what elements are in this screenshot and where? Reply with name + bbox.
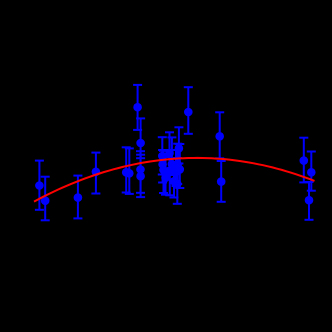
data point C1 — [158, 152, 167, 161]
data point P5 — [133, 103, 142, 112]
error bar C5 — [167, 137, 176, 175]
error bar P6 — [136, 118, 145, 158]
error bar C4 — [165, 132, 174, 173]
error bar C11 — [170, 162, 179, 198]
error bar P14 — [299, 138, 308, 183]
error bar P15 — [307, 152, 316, 191]
data point P9 — [136, 165, 145, 174]
data point C10 — [176, 165, 185, 174]
error bar C7b — [172, 150, 181, 186]
error bar P2 — [41, 177, 50, 221]
data point C7 — [173, 180, 182, 189]
error bar C8 — [174, 127, 183, 163]
data point C6 — [166, 166, 175, 175]
data point C4 — [165, 149, 174, 158]
data point C5 — [168, 160, 177, 169]
data point C7b — [172, 168, 181, 177]
error bar P8 — [125, 148, 134, 194]
error bar C3 — [159, 151, 168, 193]
data point P13 — [217, 177, 226, 186]
data point P11 — [184, 108, 193, 117]
data point C2 — [158, 160, 167, 169]
error bar P5 — [133, 85, 142, 130]
data point C3 — [159, 166, 168, 175]
data point P12 — [215, 132, 224, 141]
data point C3b — [161, 174, 170, 183]
data point P6 — [136, 139, 145, 148]
red best-fit curve — [34, 158, 315, 202]
data point P14 — [300, 156, 309, 165]
error bar C6 — [165, 150, 174, 195]
error bar P13 — [217, 161, 226, 202]
data point P2 — [41, 196, 50, 205]
error bar P16 — [305, 182, 314, 220]
data point P4 — [92, 168, 101, 177]
data point P3 — [74, 193, 83, 202]
error bar P10 — [136, 155, 145, 197]
data point P8 — [125, 169, 134, 178]
error bar P1 — [35, 161, 44, 210]
data point P16 — [305, 196, 314, 205]
data point P7 — [122, 168, 131, 177]
data point C11 — [170, 177, 179, 186]
error bar P3 — [73, 176, 82, 219]
error bar C10 — [175, 144, 184, 188]
error bar C7 — [173, 158, 182, 204]
data point P10 — [136, 172, 145, 181]
error bar P4 — [91, 153, 100, 194]
data point P1 — [35, 181, 44, 190]
data point P15 — [307, 168, 316, 177]
error bar C9 — [173, 144, 182, 184]
error bar P7 — [122, 147, 131, 192]
error bar C1 — [158, 137, 167, 174]
data point C8 — [175, 144, 184, 153]
error bar P11 — [184, 87, 193, 134]
error bar C2 — [158, 150, 167, 183]
data point C9 — [173, 160, 182, 169]
error bar P12 — [215, 112, 224, 158]
error bar P9 — [136, 151, 145, 193]
error bar C3b — [161, 157, 170, 195]
